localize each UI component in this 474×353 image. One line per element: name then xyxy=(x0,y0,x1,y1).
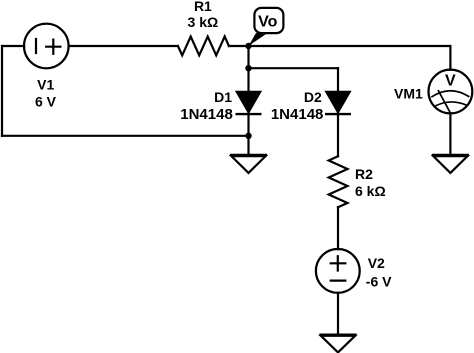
svg-text:1N4148: 1N4148 xyxy=(271,106,324,123)
voltage source V1 circle xyxy=(24,24,69,69)
wire down to VM1 xyxy=(449,46,451,70)
wire R1 to VM1 branch xyxy=(229,45,451,47)
V1 minus terminal bar xyxy=(35,39,37,53)
wire down to D2 xyxy=(337,68,339,91)
svg-text:3 kΩ: 3 kΩ xyxy=(188,14,219,30)
wire V1 to R1 xyxy=(69,45,178,47)
svg-text:R2: R2 xyxy=(355,166,373,182)
VM1 needle xyxy=(438,91,450,113)
svg-text:6 kΩ: 6 kΩ xyxy=(355,183,386,199)
node junction dot bottom xyxy=(245,133,251,139)
voltage source V2 circle xyxy=(316,249,360,293)
V1 plus sign xyxy=(46,40,60,54)
diode D1 xyxy=(236,92,262,115)
diode D2 xyxy=(325,92,351,115)
V2 minus sign xyxy=(331,280,346,282)
wire bottom horizontal xyxy=(2,135,249,137)
svg-text:V2: V2 xyxy=(368,255,385,271)
wire left vertical xyxy=(1,46,3,136)
VM1 meter scale arcs xyxy=(432,91,469,97)
ground (under VM1) xyxy=(432,155,469,173)
svg-text:6 V: 6 V xyxy=(35,94,57,110)
wire D1 cathode to bottom junction xyxy=(247,113,249,155)
wire VM1 to ground xyxy=(449,113,451,154)
wire R2 to V2 xyxy=(337,207,339,249)
wire D2 cathode to R2 xyxy=(337,113,339,156)
svg-text:V1: V1 xyxy=(37,77,54,93)
node junction dot branch xyxy=(245,65,251,71)
svg-text:V: V xyxy=(445,72,456,89)
svg-text:-6 V: -6 V xyxy=(366,273,392,289)
wire branch to D2 xyxy=(249,67,339,69)
svg-text:1N4148: 1N4148 xyxy=(180,106,233,123)
resistor R2 zigzag xyxy=(329,156,348,207)
wire left lead of V1 xyxy=(2,45,24,47)
svg-text:D1: D1 xyxy=(214,89,232,105)
ground (under D1) xyxy=(230,155,267,173)
node Vo flag xyxy=(249,8,284,46)
wire Vo node down to D1 xyxy=(247,46,249,92)
svg-text:Vo: Vo xyxy=(258,14,277,31)
svg-text:R1: R1 xyxy=(194,0,212,14)
V2 plus sign xyxy=(331,256,346,270)
svg-text:D2: D2 xyxy=(304,89,322,105)
node junction dot Vo xyxy=(245,43,251,49)
resistor R1 zigzag xyxy=(178,37,229,56)
ground (under V2) xyxy=(319,335,356,353)
wire V2 to ground xyxy=(337,293,339,335)
svg-text:VM1: VM1 xyxy=(394,85,423,101)
voltmeter VM1 circle xyxy=(429,70,473,114)
